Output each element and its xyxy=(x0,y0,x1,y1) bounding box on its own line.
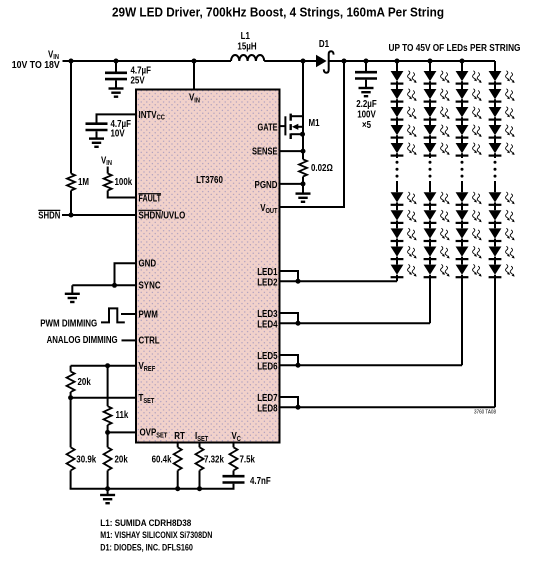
svg-text:L1: SUMIDA CDRH8D38: L1: SUMIDA CDRH8D38 xyxy=(100,518,191,528)
svg-text:2.2µF: 2.2µF xyxy=(356,98,377,109)
LED D2i xyxy=(424,247,437,257)
resistor 100k xyxy=(104,174,112,191)
wire LED2 return string 1 xyxy=(280,280,397,282)
junction rail 60.4k xyxy=(175,486,180,491)
junction string 3 top xyxy=(460,59,465,64)
ground C2 xyxy=(89,137,104,139)
node string 4 continuation dots xyxy=(494,161,497,164)
diode D1 xyxy=(316,55,327,68)
wire string 1 mid lower xyxy=(396,181,398,192)
junction OVPSET xyxy=(105,430,110,435)
wire 20k to rail xyxy=(107,471,109,489)
wire string 4 bottom stem xyxy=(494,277,496,407)
svg-text:LED8: LED8 xyxy=(257,402,277,413)
junction string 1 top xyxy=(395,59,400,64)
LED D1c xyxy=(391,107,404,117)
resistor 7.5k xyxy=(230,447,238,470)
wire ISET stub xyxy=(199,442,201,447)
wire string 3 mid upper xyxy=(461,156,463,158)
ground C1 xyxy=(109,87,124,89)
LED D1d xyxy=(391,125,404,135)
wire string 4 stem xyxy=(494,61,496,71)
LED D3j xyxy=(456,265,469,275)
LED D4b xyxy=(489,89,502,99)
svg-text:10V: 10V xyxy=(111,128,126,139)
wire C4 top xyxy=(365,61,367,71)
svg-text:LED6: LED6 xyxy=(257,360,277,371)
svg-text:M1: VISHAY SILICONIX Si7308DN: M1: VISHAY SILICONIX Si7308DN xyxy=(100,530,212,540)
wire rail L1 to D1 xyxy=(264,60,316,62)
ground C4 xyxy=(359,87,374,89)
wire string 4 mid lower xyxy=(494,181,496,192)
resistor 0.02ohm xyxy=(299,159,307,176)
wire string 2 stem xyxy=(429,61,431,71)
wire C4 to gnd xyxy=(365,80,367,88)
LED D2j xyxy=(424,265,437,275)
junction C4 xyxy=(364,59,369,64)
svg-text:4.7nF: 4.7nF xyxy=(250,475,271,486)
wire VOUT feedback xyxy=(280,61,344,207)
LED D4g xyxy=(489,210,502,220)
wire LED6 return string 3 xyxy=(280,364,462,366)
LED D3h xyxy=(456,228,469,238)
wire 7.5k to C3 xyxy=(233,471,235,476)
wire C2 to gnd xyxy=(96,131,98,138)
junction VIN pin xyxy=(192,59,197,64)
capacitor 4.7nF xyxy=(223,475,245,478)
op-amp U1 LT3760 IC body xyxy=(136,90,280,443)
wire PWM stub xyxy=(121,313,136,315)
wire VREF xyxy=(71,365,136,367)
junction M1 source/body xyxy=(300,132,305,137)
svg-text:D1: D1 xyxy=(319,38,329,49)
LED D1g xyxy=(391,210,404,220)
LED D2d xyxy=(424,125,437,135)
svg-text:×5: ×5 xyxy=(362,119,371,130)
junction C1 xyxy=(114,59,119,64)
LED D2e xyxy=(424,143,437,153)
svg-text:SHDN: SHDN xyxy=(38,210,60,221)
junction GND/SYNC xyxy=(112,283,117,288)
svg-text:PGND: PGND xyxy=(255,179,278,190)
svg-text:11k: 11k xyxy=(116,409,130,420)
svg-text:15µH: 15µH xyxy=(237,41,256,52)
LED D4d xyxy=(489,125,502,135)
wire GATE stub xyxy=(280,125,286,127)
capacitor 4.7uF 25V xyxy=(105,72,127,75)
wire TSET xyxy=(71,397,136,399)
wire 1M bottom xyxy=(70,191,72,216)
wire down to 30.9k xyxy=(70,398,72,448)
svg-text:7.5k: 7.5k xyxy=(240,454,256,465)
svg-text:PWM: PWM xyxy=(139,308,158,319)
wire string 1 bottom stem xyxy=(396,277,398,281)
wire string 2 bottom stem xyxy=(429,277,431,323)
wire rail D1 to LED strings xyxy=(329,60,495,62)
LED D4e xyxy=(489,143,502,153)
resistor 7.32k xyxy=(196,447,204,470)
wire INTVCC to C2 xyxy=(97,114,137,122)
wire 11k top xyxy=(107,366,109,407)
LED D3d xyxy=(456,125,469,135)
wire PGND to gnd xyxy=(302,184,304,194)
LED D4f xyxy=(489,192,502,202)
svg-text:20k: 20k xyxy=(78,376,92,387)
wire C1 top xyxy=(115,61,117,72)
wire 11k to OVPSET xyxy=(107,425,109,432)
LED D2f xyxy=(424,192,437,202)
node string 3 continuation dots xyxy=(461,161,464,164)
junction TSET xyxy=(68,395,73,400)
LED D3b xyxy=(456,89,469,99)
wire OVPSET xyxy=(108,431,136,433)
wire to sense resistor xyxy=(302,151,304,159)
junction rail 7.32k xyxy=(197,486,202,491)
wire string 2 mid upper xyxy=(429,156,431,158)
LED D1h xyxy=(391,228,404,238)
svg-text:L1: L1 xyxy=(241,30,250,41)
svg-text:3760 TA08: 3760 TA08 xyxy=(474,410,496,416)
svg-text:29W LED Driver, 700kHz Boost,: 29W LED Driver, 700kHz Boost, 4 Strings,… xyxy=(112,5,444,19)
svg-text:20k: 20k xyxy=(115,454,129,465)
svg-text:1M: 1M xyxy=(78,176,89,187)
svg-text:7.32k: 7.32k xyxy=(204,454,225,465)
resistor 20k lower xyxy=(104,447,112,470)
resistor 20k upper xyxy=(67,372,75,393)
wire SYNC to gnd xyxy=(71,285,73,294)
wire down to 20k lower xyxy=(107,432,109,447)
svg-text:LED4: LED4 xyxy=(257,318,278,329)
wire 7.32k to rail xyxy=(199,471,201,489)
wire string 1 mid upper xyxy=(396,156,398,158)
capacitor 4.7uF 10V xyxy=(86,122,108,125)
LED D1a xyxy=(391,71,404,81)
svg-text:100V: 100V xyxy=(357,109,376,120)
svg-text:LED5: LED5 xyxy=(257,350,277,361)
LED D3e xyxy=(456,143,469,153)
junction LED7/LED8 xyxy=(296,405,301,410)
wire bottom rail xyxy=(70,488,235,490)
LED D2b xyxy=(424,89,437,99)
LED D2c xyxy=(424,107,437,117)
svg-text:CTRL: CTRL xyxy=(139,335,161,346)
LED D4h xyxy=(489,228,502,238)
wire sense res to PGND xyxy=(302,177,304,184)
LED D4a xyxy=(489,71,502,81)
LED D2h xyxy=(424,228,437,238)
junction LED5/LED6 xyxy=(296,363,301,368)
wire GND pin down xyxy=(115,263,137,285)
wire SYNC pin xyxy=(72,284,136,286)
LED D4i xyxy=(489,247,502,257)
ground PGND xyxy=(296,192,311,194)
wire VC stub xyxy=(233,442,235,447)
wire LED3 stub xyxy=(280,313,298,323)
junction SENSE xyxy=(301,149,306,154)
wire PGND xyxy=(280,183,303,185)
wire LED8 return string 4 xyxy=(280,406,495,408)
junction string 2 top xyxy=(428,59,433,64)
wire LED4 return string 2 xyxy=(280,322,430,324)
svg-text:SHDN/UVLO: SHDN/UVLO xyxy=(139,209,186,220)
svg-text:60.4k: 60.4k xyxy=(152,454,173,465)
LED D4j xyxy=(489,265,502,275)
svg-text:LED1: LED1 xyxy=(257,266,277,277)
resistor 30.9k xyxy=(67,447,75,470)
svg-text:LED2: LED2 xyxy=(257,276,277,287)
wire LED7 stub xyxy=(280,397,298,407)
LED D1e xyxy=(391,143,404,153)
junction PGND xyxy=(301,181,306,186)
LED D3a xyxy=(456,71,469,81)
LED D2g xyxy=(424,210,437,220)
svg-text:GND: GND xyxy=(139,258,157,269)
LED D3f xyxy=(456,192,469,202)
node string 1 continuation dots xyxy=(396,161,399,164)
svg-text:0.02Ω: 0.02Ω xyxy=(311,162,333,173)
svg-text:30.9k: 30.9k xyxy=(76,454,97,465)
junction rail gnd xyxy=(105,486,110,491)
svg-text:LED7: LED7 xyxy=(257,392,277,403)
wire CTRL stub xyxy=(122,339,137,341)
junction VOUT rail xyxy=(342,59,347,64)
svg-text:100k: 100k xyxy=(115,176,133,187)
svg-text:GATE: GATE xyxy=(258,121,278,132)
resistor 60.4k xyxy=(174,447,182,470)
wire string 3 mid lower xyxy=(461,181,463,192)
wire VREF corner down xyxy=(70,366,72,372)
svg-text:PWM DIMMING: PWM DIMMING xyxy=(40,317,97,328)
resistor 11k xyxy=(104,406,112,425)
wire LED5 stub xyxy=(280,355,298,365)
junction M1 drain rail xyxy=(301,59,306,64)
LED D1b xyxy=(391,89,404,99)
junction LED1/LED2 xyxy=(296,279,301,284)
wire SHDN to pin xyxy=(62,214,136,216)
wire 60.4k to rail xyxy=(177,471,179,489)
ground bottom rail xyxy=(100,494,115,496)
svg-text:10V TO 18V: 10V TO 18V xyxy=(12,59,61,70)
svg-text:LED3: LED3 xyxy=(257,308,277,319)
junction LED3/LED4 xyxy=(296,321,301,326)
resistor 1M xyxy=(67,174,75,191)
junction SHDN xyxy=(69,213,74,218)
svg-text:RT: RT xyxy=(174,430,185,441)
wire C1 to gnd xyxy=(115,80,117,88)
node string 2 continuation dots xyxy=(429,161,432,164)
svg-text:D1: DIODES, INC. DFLS160: D1: DIODES, INC. DFLS160 xyxy=(100,542,193,552)
wire M1 drain/source vertical xyxy=(302,61,304,151)
wire 1M top xyxy=(70,61,72,174)
wire VIN rail left xyxy=(63,60,232,62)
ground SYNC xyxy=(65,293,80,295)
junction VIN/1M xyxy=(69,59,74,64)
LED D3c xyxy=(456,107,469,117)
wire VIN pin stub xyxy=(193,61,195,90)
svg-text:ANALOG DIMMING: ANALOG DIMMING xyxy=(47,334,118,345)
wire C3 to rail xyxy=(233,484,235,489)
wire string 3 stem xyxy=(461,61,463,71)
svg-text:LT3760: LT3760 xyxy=(196,174,223,185)
wire SENSE xyxy=(280,150,303,152)
inductor L1 xyxy=(231,55,264,61)
wire string 4 mid upper xyxy=(494,156,496,158)
wire VIN to 100k xyxy=(107,167,109,174)
transistor M1 MOSFET xyxy=(284,116,286,135)
wire string 3 bottom stem xyxy=(461,277,463,365)
wire LED1 stub xyxy=(280,271,298,281)
LED D4c xyxy=(489,107,502,117)
svg-text:SENSE: SENSE xyxy=(252,145,278,156)
LED D1f xyxy=(391,192,404,202)
LED D3i xyxy=(456,247,469,257)
svg-text:SYNC: SYNC xyxy=(139,280,161,291)
wire RT stub xyxy=(177,442,179,447)
wire 100k to FAULT xyxy=(108,191,136,198)
wire 30.9k to rail xyxy=(70,471,72,489)
LED D3g xyxy=(456,210,469,220)
svg-text:UP TO 45V OF LEDs PER STRING: UP TO 45V OF LEDs PER STRING xyxy=(389,42,521,53)
LED D1j xyxy=(391,265,404,275)
wire rail to gnd xyxy=(107,489,109,495)
svg-text:M1: M1 xyxy=(309,117,320,128)
LED D1i xyxy=(391,247,404,257)
PWM pulse symbol xyxy=(101,308,125,322)
wire 20k to TSET xyxy=(70,392,72,398)
wire string 2 mid lower xyxy=(429,181,431,192)
svg-text:25V: 25V xyxy=(131,75,146,86)
junction VREF/11k xyxy=(105,363,110,368)
capacitor 2.2uF 100V x5 xyxy=(355,71,377,74)
LED D2a xyxy=(424,71,437,81)
wire string 1 stem xyxy=(396,61,398,71)
